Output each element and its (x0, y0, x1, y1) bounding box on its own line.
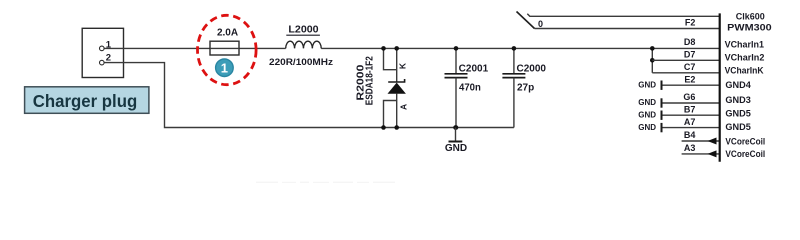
svg-text:VCharIn2: VCharIn2 (725, 52, 765, 63)
connector bar (719, 13, 721, 161)
callout 1 (216, 59, 234, 77)
pin D7 row (652, 50, 764, 64)
svg-text:G6: G6 (683, 92, 695, 102)
svg-text:GND5: GND5 (725, 109, 751, 120)
fuse F1 (210, 28, 239, 56)
clip top of Clk600 (723, 0, 800, 13)
charger plug connector box (82, 28, 123, 77)
pin A3 row arrow (682, 143, 766, 160)
ground (445, 125, 467, 154)
svg-text:D8: D8 (684, 37, 696, 47)
svg-text:GND: GND (445, 143, 467, 154)
svg-text:PWM300: PWM300 (727, 22, 771, 33)
diode R2000 ESDA18-1F2 (356, 46, 409, 130)
pin 1 (100, 39, 112, 50)
joint to D7/C7 (650, 46, 655, 73)
diode vertical leads (396, 48, 398, 82)
wire pin2 to ground rail (104, 63, 514, 128)
svg-text:GND3: GND3 (725, 95, 750, 106)
svg-text:D7: D7 (684, 50, 696, 60)
svg-text:GND: GND (638, 98, 656, 107)
cathode bar with zener tick (388, 79, 404, 82)
svg-text:B4: B4 (684, 130, 696, 140)
svg-text:C2001: C2001 (459, 64, 489, 75)
triangle (388, 83, 406, 94)
charger plug label (25, 87, 149, 114)
svg-text:E2: E2 (684, 74, 695, 84)
svg-text:220R/100MHz: 220R/100MHz (269, 57, 333, 68)
svg-text:470n: 470n (459, 82, 481, 93)
pin 2 (100, 53, 112, 65)
svg-text:VCharInK: VCharInK (725, 66, 764, 77)
svg-text:GND4: GND4 (725, 80, 751, 91)
svg-text:27p: 27p (517, 82, 534, 93)
svg-text:2.0A: 2.0A (217, 28, 238, 39)
svg-text:A7: A7 (684, 117, 696, 127)
switch (517, 12, 720, 30)
svg-text:GND: GND (638, 123, 656, 132)
svg-text:F2: F2 (685, 18, 696, 28)
svg-text:Charger plug: Charger plug (33, 91, 138, 111)
svg-text:VCharIn1: VCharIn1 (725, 40, 765, 51)
pin G6 row GND (638, 92, 751, 108)
svg-text:B7: B7 (684, 104, 696, 114)
pin C7 row (652, 62, 763, 77)
svg-text:ESDA18-1F2: ESDA18-1F2 (365, 56, 376, 105)
svg-text:K: K (397, 62, 407, 69)
svg-text:C7: C7 (684, 62, 696, 72)
pin E2 row GND (638, 74, 751, 91)
highlight ellipse (198, 15, 257, 84)
pin B7 row GND (638, 104, 751, 120)
svg-text:GND: GND (638, 110, 656, 119)
svg-text:GND: GND (638, 80, 656, 89)
left bracket wires (384, 48, 397, 69)
wire main net inductor to connector (321, 47, 720, 49)
svg-text:1: 1 (221, 60, 228, 75)
svg-text:VCoreCoil: VCoreCoil (725, 149, 765, 160)
svg-text:Clk600: Clk600 (736, 12, 765, 23)
svg-text:A: A (398, 104, 408, 110)
svg-text:GND5: GND5 (725, 122, 751, 133)
svg-text:A3: A3 (684, 143, 696, 153)
junction dots (381, 46, 386, 51)
pin D8 row (684, 37, 765, 51)
svg-text:0: 0 (538, 19, 543, 29)
capacitor C2000 (502, 46, 546, 127)
inductor L2000 (269, 25, 333, 68)
svg-text:L2000: L2000 (288, 25, 319, 36)
svg-text:C2000: C2000 (517, 64, 547, 75)
pin B4 row arrow (682, 130, 766, 147)
svg-text:VCoreCoil: VCoreCoil (725, 136, 765, 147)
capacitor C2001 (445, 46, 489, 130)
pin A7 row GND (638, 117, 751, 133)
wire pin1 to fuse and main net (104, 47, 286, 49)
faint cropped caption at bottom edge (256, 182, 395, 183)
